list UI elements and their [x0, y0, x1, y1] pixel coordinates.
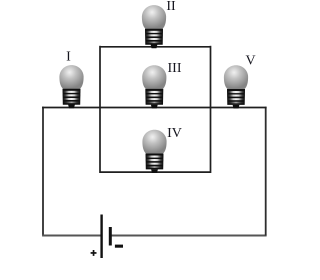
battery B1 negative plate (short)	[109, 227, 112, 246]
wire: right vertical of outer loop	[265, 107, 267, 236]
svg-text:III: III	[168, 61, 182, 76]
wire: inner box top edge (lamp II branch)	[100, 46, 211, 48]
wire: left vertical of outer loop	[42, 107, 44, 236]
battery polarity label -	[115, 245, 123, 248]
svg-text:I: I	[66, 50, 71, 65]
lamp IV	[142, 130, 166, 173]
wire: middle horizontal rail with lamps I III V	[42, 107, 267, 109]
lamp I	[59, 65, 83, 108]
wire: bottom right segment from battery negative plate	[112, 235, 267, 237]
wire: inner box right edge	[210, 46, 212, 173]
wire: inner box bottom edge (lamp IV branch)	[100, 171, 211, 173]
svg-text:II: II	[166, 0, 176, 14]
battery B1 positive plate (long)	[100, 215, 102, 259]
wire: inner box left edge	[99, 46, 101, 173]
wire: bottom left segment to battery positive plate	[42, 235, 101, 237]
svg-text:IV: IV	[167, 126, 182, 141]
lamp II	[142, 5, 166, 48]
lamp III	[142, 65, 166, 108]
battery polarity label +	[91, 250, 97, 256]
svg-text:V: V	[245, 53, 255, 68]
lamp V	[224, 65, 248, 108]
